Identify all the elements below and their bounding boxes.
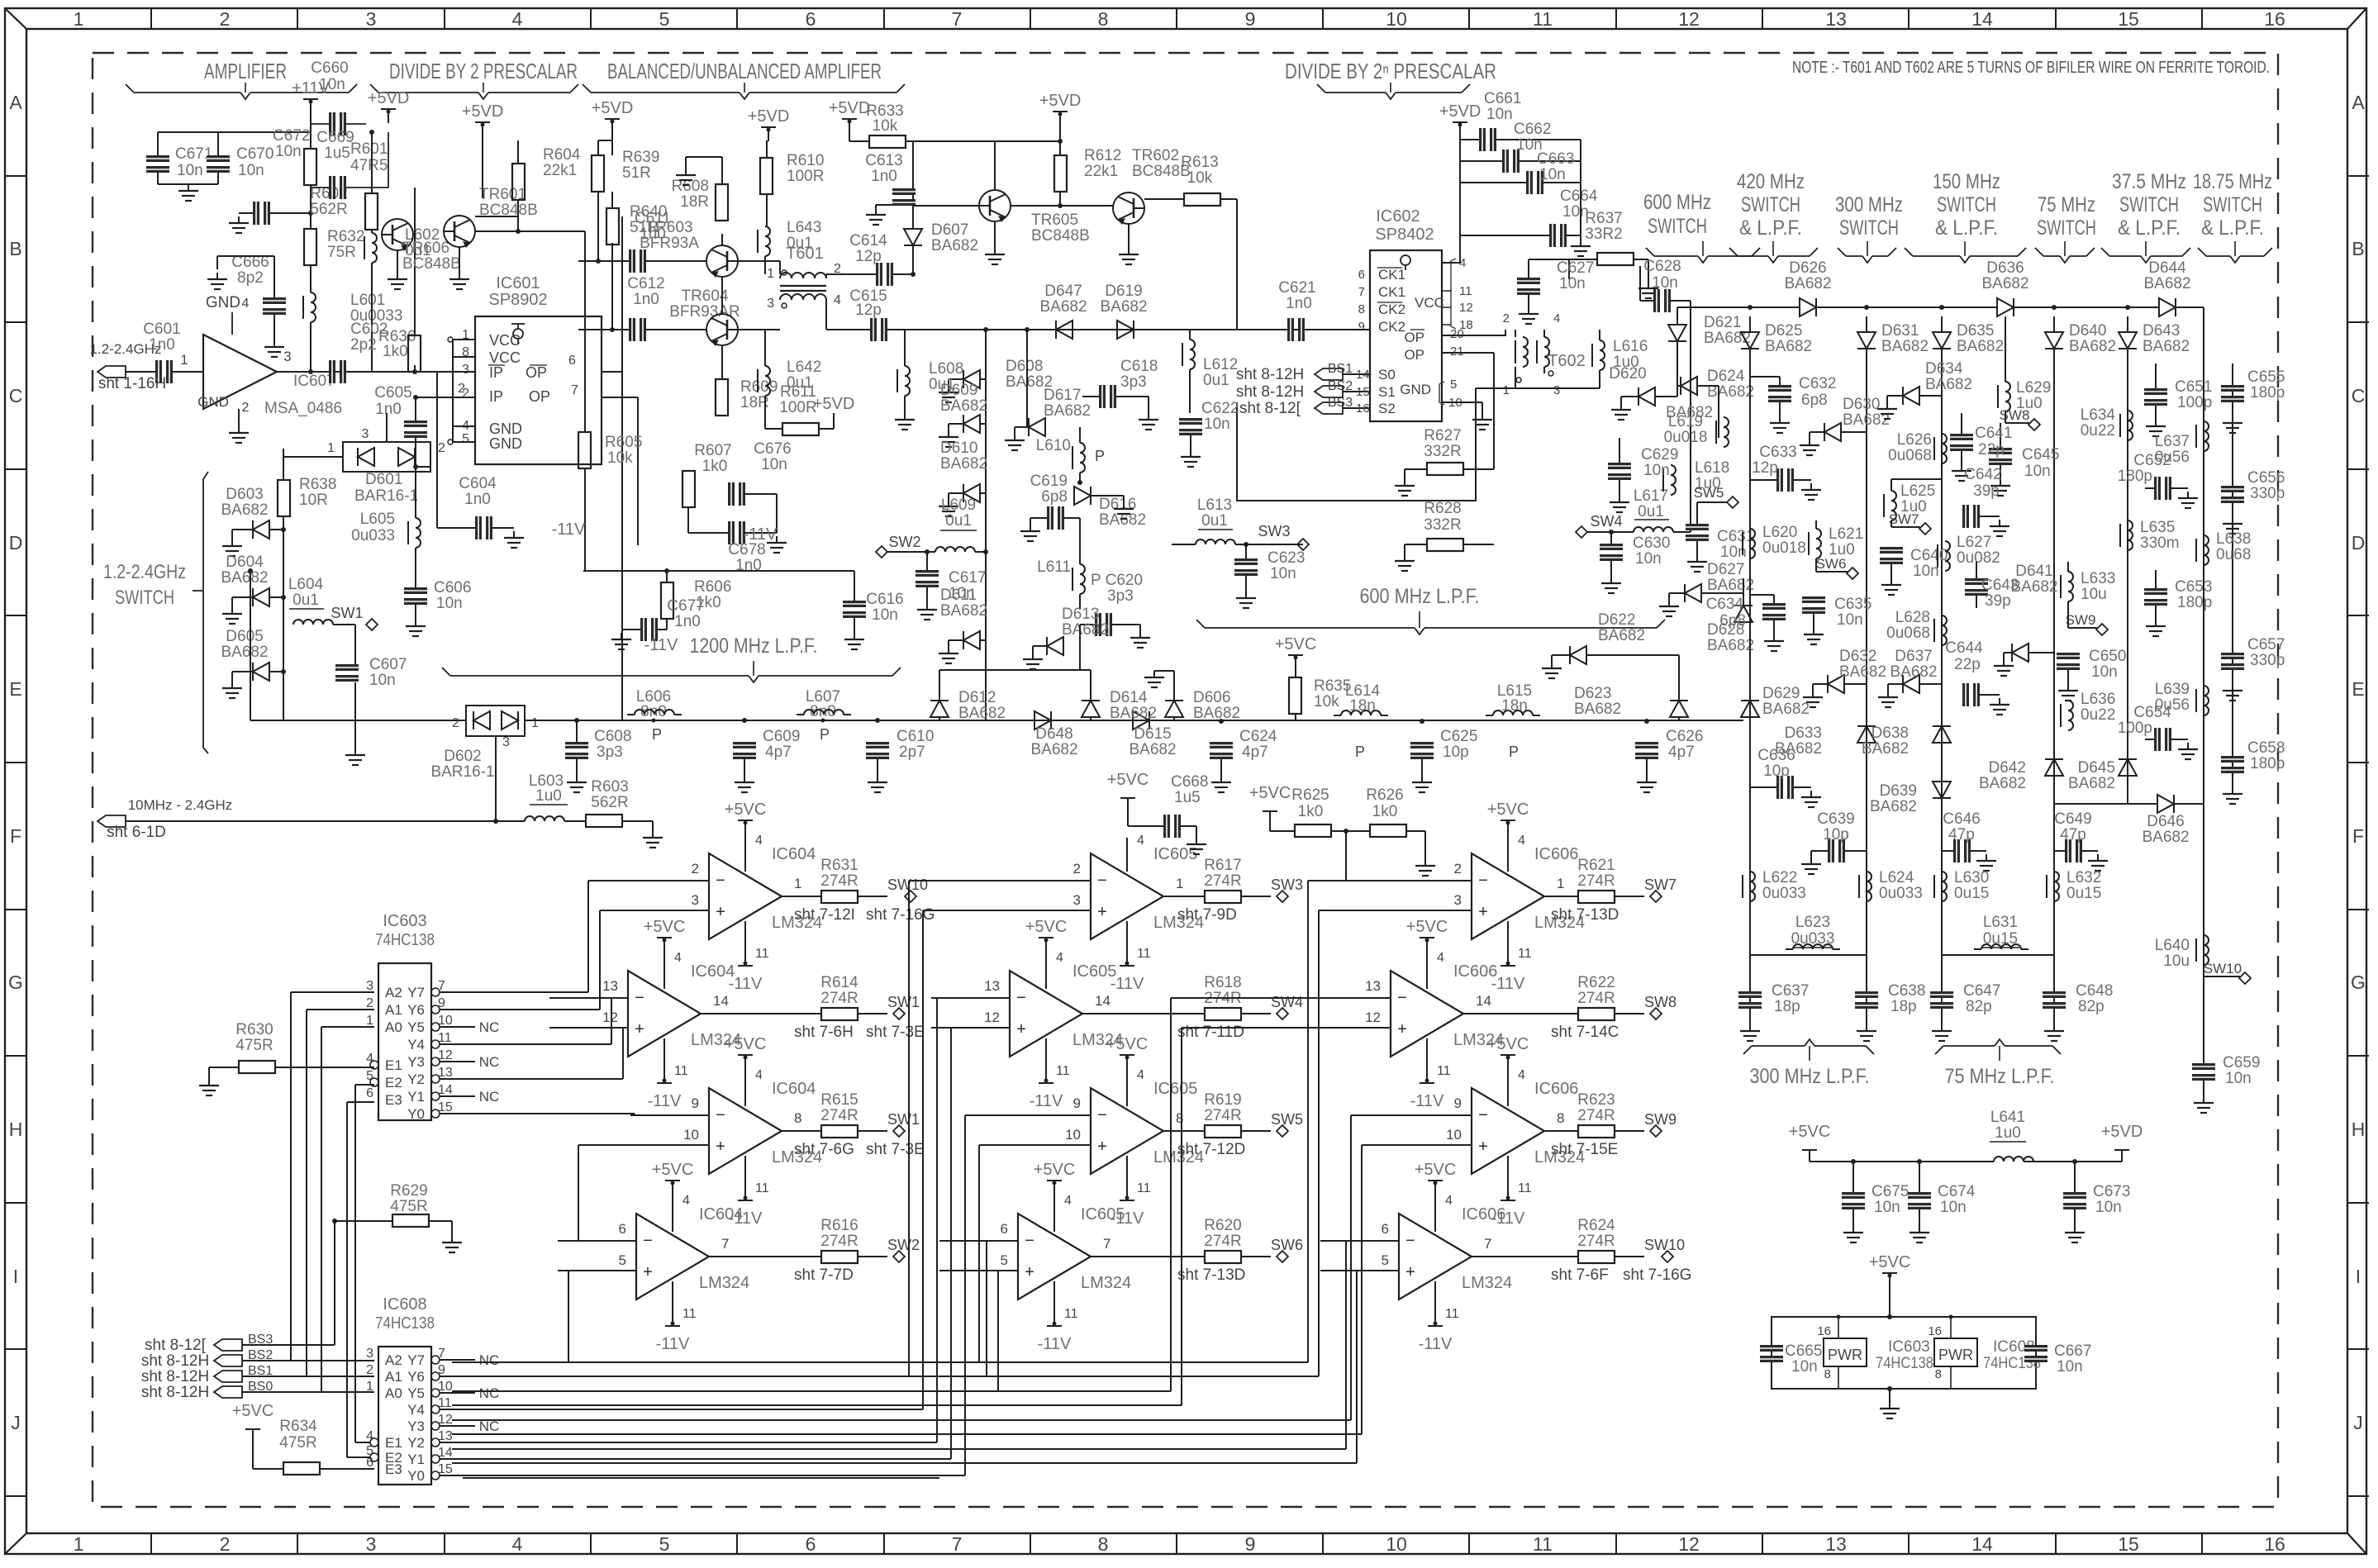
svg-text:BC848B: BC848B [1031,227,1090,245]
svg-text:F: F [2352,825,2364,847]
svg-text:IC603: IC603 [1888,1338,1930,1356]
svg-text:+: + [1397,1020,1407,1038]
svg-text:SWITCH: SWITCH [1648,215,1707,238]
svg-text:sht 7-12D: sht 7-12D [1177,1141,1245,1158]
svg-text:NC: NC [479,1019,500,1035]
svg-text:D603: D603 [226,486,263,503]
svg-text:+: + [1025,1263,1034,1281]
svg-text:7: 7 [721,1236,729,1252]
svg-text:C662: C662 [1514,121,1551,138]
svg-text:P: P [820,726,830,743]
svg-text:BA682: BA682 [1870,798,1917,815]
svg-text:D604: D604 [226,554,264,571]
svg-text:13: 13 [438,1066,453,1080]
svg-text:10k: 10k [607,449,633,467]
svg-text:4: 4 [1137,1068,1144,1082]
svg-text:100R: 100R [779,399,816,416]
svg-text:10n: 10n [436,595,463,612]
svg-text:H: H [9,1119,23,1140]
svg-text:sht 7-3E: sht 7-3E [866,1141,925,1158]
svg-text:VCC: VCC [489,332,521,349]
svg-text:C614: C614 [849,232,887,249]
svg-text:1n0: 1n0 [375,401,402,418]
svg-text:11: 11 [1056,1064,1070,1078]
svg-text:BS3: BS3 [1328,396,1353,410]
svg-text:R606: R606 [694,578,731,596]
svg-text:R626: R626 [1366,786,1403,804]
svg-text:10p: 10p [1763,763,1790,780]
svg-text:CK1: CK1 [1378,267,1405,283]
svg-text:14: 14 [1095,993,1111,1009]
svg-text:PWR: PWR [1828,1347,1862,1363]
svg-text:D608: D608 [1006,358,1043,375]
svg-text:6: 6 [806,8,816,30]
svg-text:BA682: BA682 [221,644,268,661]
svg-text:12p: 12p [855,248,882,265]
svg-text:L608: L608 [929,360,963,378]
svg-text:D601: D601 [365,471,402,488]
svg-text:12: 12 [1678,1533,1700,1555]
svg-text:L632: L632 [2066,869,2101,886]
svg-text:LM324: LM324 [699,1274,749,1292]
svg-text:J: J [2353,1412,2363,1433]
svg-text:IC608: IC608 [383,1295,426,1314]
svg-text:C676: C676 [754,440,791,458]
svg-text:SWITCH: SWITCH [1839,216,1899,240]
svg-text:600 MHz L.P.F.: 600 MHz L.P.F. [1360,585,1480,608]
svg-text:8: 8 [1824,1367,1831,1381]
svg-text:8: 8 [1935,1367,1942,1381]
svg-text:SW10: SW10 [887,877,928,893]
svg-text:BA682: BA682 [1030,741,1077,758]
svg-text:+5VD: +5VD [748,107,790,126]
svg-text:C623: C623 [1267,549,1305,567]
svg-text:R628: R628 [1424,500,1461,517]
svg-text:BA682: BA682 [1981,275,2028,292]
svg-text:1: 1 [180,352,188,368]
svg-text:R624: R624 [1577,1217,1615,1234]
svg-text:SW10: SW10 [1644,1237,1685,1253]
svg-text:L624: L624 [1879,869,1914,886]
svg-text:L634: L634 [2081,406,2116,424]
svg-text:C663: C663 [1537,150,1574,168]
svg-text:4: 4 [682,1194,690,1208]
svg-text:L620: L620 [1762,524,1797,541]
svg-text:4: 4 [1518,834,1525,848]
svg-text:IC604: IC604 [699,1205,743,1224]
svg-text:NC: NC [479,1352,500,1368]
svg-text:L611: L611 [1037,558,1071,576]
svg-text:1: 1 [1176,876,1183,891]
svg-text:VCC: VCC [1415,295,1444,311]
svg-text:8: 8 [1176,1110,1183,1126]
svg-text:D636: D636 [1986,259,2024,277]
svg-text:D622: D622 [1598,611,1635,629]
svg-text:-11V: -11V [552,520,586,539]
svg-text:E2: E2 [385,1075,402,1090]
svg-text:10n: 10n [319,76,345,93]
svg-text:L609: L609 [941,497,976,514]
svg-text:L627: L627 [1957,534,1991,551]
svg-text:13: 13 [1365,978,1381,994]
svg-text:A1: A1 [385,1369,402,1385]
svg-text:15: 15 [438,1100,453,1114]
svg-text:2: 2 [438,441,445,455]
svg-text:L616: L616 [1613,338,1648,355]
svg-text:10n: 10n [369,672,396,689]
svg-text:BA682: BA682 [1044,402,1091,420]
svg-text:+5VC: +5VC [1406,918,1448,936]
svg-text:IC604: IC604 [772,845,816,863]
svg-text:C613: C613 [865,152,902,169]
svg-text:1: 1 [74,8,84,30]
svg-text:150 MHz: 150 MHz [1933,170,2000,193]
svg-text:R611: R611 [780,383,816,401]
svg-text:T601: T601 [786,245,824,263]
svg-text:6p8: 6p8 [1719,612,1746,630]
svg-text:4: 4 [242,297,250,311]
svg-text:D626: D626 [1789,259,1826,277]
svg-text:-11V: -11V [1419,1335,1453,1353]
svg-text:SP8902: SP8902 [488,291,547,309]
svg-text:sht 6-1D: sht 6-1D [107,824,166,841]
svg-text:−: − [1478,872,1488,890]
svg-text:IC605: IC605 [1153,1080,1197,1098]
svg-text:C635: C635 [1834,596,1871,613]
svg-text:sht 7-13D: sht 7-13D [1177,1266,1245,1284]
svg-text:1n0: 1n0 [1286,295,1312,312]
svg-text:+5VD: +5VD [2101,1123,2143,1141]
svg-text:R630: R630 [235,1021,273,1038]
svg-text:10n: 10n [949,585,975,602]
svg-text:R605: R605 [605,434,642,451]
svg-text:600 MHz: 600 MHz [1643,191,1711,214]
svg-text:4p7: 4p7 [765,744,792,761]
svg-text:NC: NC [479,1054,500,1070]
svg-text:D646: D646 [2147,813,2184,830]
svg-text:8p2: 8p2 [237,269,264,287]
svg-text:10n: 10n [1652,274,1678,292]
svg-text:SW1: SW1 [887,1111,920,1128]
svg-text:16: 16 [2264,1533,2285,1555]
svg-text:11: 11 [1064,1307,1078,1321]
svg-text:A: A [2352,92,2365,113]
svg-text:R635: R635 [1314,677,1351,695]
svg-text:15: 15 [438,1462,453,1476]
svg-text:+5VC: +5VC [232,1402,274,1420]
svg-text:5: 5 [619,1252,626,1268]
svg-text:+: + [635,1020,644,1038]
svg-text:0u68: 0u68 [2216,546,2251,563]
svg-text:Y6: Y6 [407,1369,425,1385]
svg-text:−: − [1397,989,1407,1007]
svg-text:C649: C649 [2054,810,2091,828]
svg-text:3: 3 [366,8,377,30]
svg-text:C654: C654 [2133,704,2171,721]
svg-text:−: − [1016,989,1026,1007]
svg-text:R615: R615 [820,1091,858,1109]
svg-text:IP: IP [489,388,503,405]
svg-text:BA682: BA682 [1979,775,2026,792]
svg-text:sht 8-12H: sht 8-12H [141,1352,209,1370]
svg-text:Y6: Y6 [407,1002,425,1018]
svg-text:22k1: 22k1 [543,162,577,179]
svg-text:GND: GND [489,435,522,452]
svg-text:R627: R627 [1424,427,1461,444]
svg-text:sht 8-12H: sht 8-12H [141,1368,209,1385]
svg-text:12: 12 [1459,301,1473,315]
svg-text:2: 2 [366,1363,373,1377]
svg-text:10k: 10k [873,117,898,135]
svg-text:4: 4 [1056,951,1063,965]
svg-text:BA682: BA682 [1574,701,1621,718]
svg-text:−: − [1478,1106,1488,1124]
svg-text:3p3: 3p3 [1107,587,1134,605]
svg-text:LM324: LM324 [1081,1274,1131,1292]
svg-text:15: 15 [2118,1533,2139,1555]
svg-text:IC604: IC604 [772,1080,816,1098]
svg-text:SW7: SW7 [1889,511,1919,527]
svg-text:6: 6 [568,354,576,368]
svg-text:BALANCED/UNBALANCED AMPLIFER: BALANCED/UNBALANCED AMPLIFER [607,59,882,83]
svg-text:F: F [10,825,21,847]
svg-text:10n: 10n [1559,275,1586,292]
svg-text:1k0: 1k0 [1372,803,1398,820]
svg-text:11: 11 [1533,1533,1553,1555]
svg-text:13: 13 [438,1429,453,1443]
svg-text:L618: L618 [1695,459,1729,477]
svg-text:C647: C647 [1963,982,2000,1000]
svg-text:37.5 MHz: 37.5 MHz [2112,170,2186,193]
svg-text:8: 8 [1557,1110,1564,1126]
svg-text:6: 6 [1001,1221,1008,1237]
svg-text:274R: 274R [1204,1233,1241,1250]
svg-text:0u068: 0u068 [1886,625,1930,642]
svg-text:BA682: BA682 [1193,705,1240,722]
svg-text:332R: 332R [1424,443,1461,460]
svg-text:1: 1 [531,716,539,730]
svg-text:MSA_0486: MSA_0486 [264,400,342,417]
svg-text:R618: R618 [1204,974,1241,991]
svg-text:9: 9 [1073,1095,1081,1111]
svg-text:12p: 12p [1752,459,1778,477]
svg-text:−: − [716,1106,725,1124]
svg-text:10n: 10n [1204,416,1230,433]
svg-text:+5VD: +5VD [592,99,634,117]
svg-text:D643: D643 [2143,322,2180,340]
svg-text:SW4: SW4 [1271,994,1303,1010]
svg-text:Y5: Y5 [407,1385,425,1401]
svg-text:BA682: BA682 [2142,829,2189,846]
svg-text:10n: 10n [1913,563,1939,580]
svg-text:75 MHz: 75 MHz [2038,193,2095,216]
svg-text:+: + [716,903,725,921]
svg-text:D629: D629 [1762,685,1800,702]
svg-text:C674: C674 [1938,1183,1976,1200]
svg-text:D612: D612 [958,689,996,706]
svg-text:L613: L613 [1197,497,1232,514]
svg-text:0u1: 0u1 [929,376,955,393]
svg-text:TR605: TR605 [1031,211,1078,229]
svg-text:GND: GND [206,294,240,311]
svg-text:274R: 274R [820,990,858,1007]
svg-text:10u: 10u [2081,586,2107,603]
svg-text:IC606: IC606 [1534,845,1578,863]
svg-text:12: 12 [438,1413,453,1427]
svg-text:3: 3 [366,1347,373,1361]
svg-text:10n: 10n [1940,1199,1967,1216]
svg-text:10k: 10k [1314,693,1339,710]
svg-text:BA682: BA682 [958,705,1006,722]
svg-text:14: 14 [1971,8,1993,30]
svg-text:BA682: BA682 [940,397,987,415]
svg-text:0u018: 0u018 [1762,539,1806,557]
svg-text:D635: D635 [1957,322,1994,340]
svg-text:BA682: BA682 [931,237,978,254]
svg-text:12: 12 [984,1010,1000,1025]
svg-text:B: B [9,238,21,259]
svg-text:10: 10 [1065,1127,1081,1143]
svg-text:0u018: 0u018 [1664,429,1708,446]
svg-text:8: 8 [794,1110,801,1126]
svg-text:C658: C658 [2247,739,2285,757]
svg-text:10: 10 [438,1014,453,1028]
svg-text:274R: 274R [1577,1233,1615,1250]
svg-text:C678: C678 [728,541,765,558]
svg-text:GND: GND [197,394,229,410]
svg-text:+5VC: +5VC [1034,1161,1076,1179]
svg-text:sht 7-13D: sht 7-13D [1551,906,1619,924]
svg-text:sht 1-16H: sht 1-16H [98,375,166,392]
svg-text:1: 1 [1557,876,1564,891]
svg-text:SWITCH: SWITCH [115,587,174,609]
svg-text:SWITCH: SWITCH [2119,193,2179,216]
svg-text:R619: R619 [1204,1091,1241,1109]
svg-text:18n: 18n [1501,697,1528,715]
svg-text:sht 7-6G: sht 7-6G [794,1141,854,1158]
svg-text:12: 12 [602,1010,618,1025]
svg-text:10n: 10n [275,143,302,160]
svg-text:AMPLIFIER: AMPLIFIER [204,59,287,83]
svg-text:R634: R634 [279,1418,317,1435]
svg-text:IC605: IC605 [1072,962,1116,981]
svg-text:9: 9 [1245,8,1256,30]
svg-text:C622: C622 [1201,400,1239,417]
svg-text:D638: D638 [1871,725,1909,742]
svg-text:C618: C618 [1120,358,1158,375]
svg-text:C640: C640 [1910,547,1948,564]
svg-text:A: A [9,92,22,113]
svg-text:D613: D613 [1062,606,1099,623]
svg-text:D642: D642 [1989,759,2026,777]
svg-text:1: 1 [794,876,801,891]
svg-text:IC605: IC605 [1153,845,1197,863]
svg-text:+5VD: +5VD [1039,92,1082,110]
svg-text:C672: C672 [273,127,310,145]
svg-text:R616: R616 [820,1217,858,1234]
svg-text:-11V: -11V [644,636,678,654]
svg-text:10n: 10n [1874,1199,1900,1216]
svg-text:sht 7-16G: sht 7-16G [1623,1266,1691,1284]
svg-text:C677: C677 [667,597,704,615]
svg-text:3p3: 3p3 [1120,373,1147,391]
svg-text:R613: R613 [1181,154,1218,171]
svg-text:13: 13 [1825,1533,1847,1555]
svg-text:3: 3 [1073,892,1081,908]
svg-text:BA682: BA682 [1925,376,1972,393]
svg-text:P: P [1095,448,1105,464]
svg-text:9: 9 [1245,1533,1256,1555]
svg-text:VCC: VCC [489,349,521,366]
svg-text:D641: D641 [2015,563,2052,580]
svg-text:OP: OP [529,388,550,405]
svg-text:Y1: Y1 [407,1452,425,1467]
svg-text:4: 4 [1137,834,1144,848]
svg-text:1.2-2.4GHz: 1.2-2.4GHz [103,561,186,583]
svg-text:274R: 274R [820,1233,858,1250]
svg-text:4: 4 [674,951,682,965]
svg-text:+5VC: +5VC [1025,918,1068,936]
svg-text:1: 1 [366,1014,373,1028]
svg-text:I: I [2356,1266,2361,1287]
svg-text:3: 3 [362,427,369,441]
svg-text:1n0: 1n0 [633,291,659,308]
svg-text:R622: R622 [1577,974,1615,991]
svg-text:C660: C660 [311,59,348,77]
svg-text:4: 4 [512,8,523,30]
svg-text:3: 3 [462,363,469,377]
svg-text:SWITCH: SWITCH [2037,216,2096,240]
svg-text:IP: IP [489,364,503,381]
svg-text:1u0: 1u0 [535,787,562,805]
svg-text:3: 3 [767,297,774,311]
svg-text:L626: L626 [1897,431,1932,449]
svg-text:C628: C628 [1643,258,1681,275]
svg-text:BA682: BA682 [1957,338,2004,355]
svg-text:12: 12 [1365,1010,1381,1025]
svg-text:BAR16-1: BAR16-1 [354,487,418,505]
svg-text:C650: C650 [2089,648,2126,665]
svg-text:I: I [13,1266,18,1287]
svg-text:11: 11 [1533,8,1553,30]
svg-text:10n: 10n [872,606,898,624]
svg-text:6: 6 [619,1221,626,1237]
svg-text:L601: L601 [350,292,385,309]
svg-text:274R: 274R [1577,990,1615,1007]
svg-text:sht 7-15E: sht 7-15E [1551,1141,1618,1158]
svg-text:C609: C609 [763,728,800,745]
svg-text:D615: D615 [1134,725,1171,743]
svg-text:C645: C645 [2022,446,2059,463]
svg-text:1: 1 [767,267,774,281]
svg-text:L642: L642 [787,359,821,376]
svg-text:562R: 562R [310,201,347,218]
svg-text:475R: 475R [390,1198,427,1215]
svg-text:C670: C670 [236,145,273,163]
svg-text:P: P [1509,744,1519,760]
svg-text:2: 2 [452,716,459,730]
svg-text:L612: L612 [1203,356,1238,373]
svg-text:SWITCH: SWITCH [1741,193,1800,216]
svg-text:R612: R612 [1084,147,1121,164]
svg-text:21: 21 [1450,344,1464,359]
svg-text:8: 8 [1098,1533,1109,1555]
svg-text:L629: L629 [2016,379,2051,397]
svg-text:L636: L636 [2081,691,2115,708]
svg-text:D644: D644 [2148,259,2186,277]
svg-text:D633: D633 [1785,725,1822,742]
svg-text:+5VC: +5VC [1415,1161,1457,1179]
